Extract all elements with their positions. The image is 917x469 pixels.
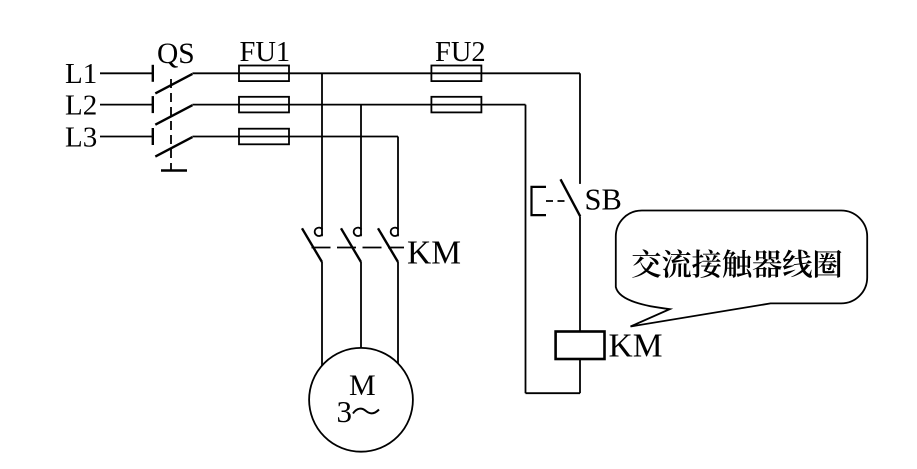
switch QS pole 2 blade bbox=[155, 105, 192, 125]
wire KM contact 1 to motor bbox=[321, 262, 323, 366]
switch QS linkage dashed bbox=[170, 79, 172, 171]
fuse FU2b bbox=[431, 97, 481, 113]
wire L2 to QS bbox=[100, 104, 153, 106]
contactor KM contact 3 blade bbox=[378, 228, 398, 262]
fuse FU1b bbox=[239, 97, 289, 113]
svg-text:FU2: FU2 bbox=[435, 37, 486, 68]
pushbutton SB dashed link bbox=[546, 200, 568, 202]
wire KM contact 2 to motor bbox=[360, 262, 362, 348]
contactor KM contact 2 arc bbox=[354, 228, 362, 236]
switch QS pole 3 fixed contact bbox=[152, 128, 154, 145]
switch QS pole 2 fixed contact bbox=[152, 96, 154, 113]
motor tilde wave bbox=[353, 409, 379, 414]
motor M circle bbox=[309, 348, 413, 452]
svg-text:L2: L2 bbox=[65, 90, 97, 122]
svg-text:KM: KM bbox=[609, 328, 663, 365]
wire branch L3 down to KM contact 3 bbox=[397, 137, 399, 237]
wire row2 QS to corner bbox=[192, 104, 525, 106]
contactor KM contact 3 arc bbox=[391, 228, 399, 236]
contactor KM contact 1 blade bbox=[302, 228, 322, 262]
svg-text:M: M bbox=[349, 369, 376, 402]
contactor KM linkage dashed bbox=[312, 247, 405, 249]
contactor KM contact 2 blade bbox=[341, 228, 361, 262]
fuse FU1c bbox=[239, 129, 289, 145]
wire branch L2 down to KM contact 2 bbox=[360, 105, 362, 237]
fuse FU2a bbox=[431, 66, 481, 82]
coil KM rectangle bbox=[556, 332, 605, 360]
svg-text:FU1: FU1 bbox=[240, 37, 291, 68]
svg-text:3: 3 bbox=[337, 394, 353, 429]
wire KM contact 3 to motor bbox=[397, 262, 399, 364]
switch QS pole 3 blade bbox=[155, 137, 192, 157]
svg-text:SB: SB bbox=[585, 183, 622, 217]
wire FU2b corner down to bottom bbox=[525, 105, 527, 394]
wire branch L1 down to KM contact 1 bbox=[321, 73, 323, 236]
callout text AC contactor coil bbox=[632, 249, 841, 278]
wire row1 QS to corner bbox=[192, 72, 580, 74]
svg-text:L3: L3 bbox=[65, 121, 97, 153]
wire FU2a corner down to SB bbox=[579, 73, 581, 184]
svg-text:KM: KM bbox=[407, 235, 461, 272]
fuse FU1a bbox=[239, 66, 289, 82]
svg-text:L1: L1 bbox=[65, 58, 97, 90]
switch QS pole 1 blade bbox=[155, 74, 192, 94]
callout bubble bbox=[616, 211, 867, 327]
pushbutton SB blade bbox=[561, 179, 581, 216]
pushbutton SB actuator bbox=[532, 187, 547, 215]
wire L3 to QS bbox=[100, 136, 153, 138]
wire L1 to QS bbox=[100, 72, 153, 74]
switch QS handle bar bbox=[161, 169, 187, 171]
wire SB to KM coil bbox=[579, 216, 581, 331]
wire row3 QS to corner bbox=[192, 136, 398, 138]
wire KM coil down bbox=[579, 359, 581, 393]
switch QS pole 1 fixed contact bbox=[152, 65, 154, 82]
wire bottom return bbox=[526, 392, 581, 394]
svg-text:QS: QS bbox=[157, 38, 195, 70]
contactor KM contact 1 arc bbox=[315, 228, 323, 236]
